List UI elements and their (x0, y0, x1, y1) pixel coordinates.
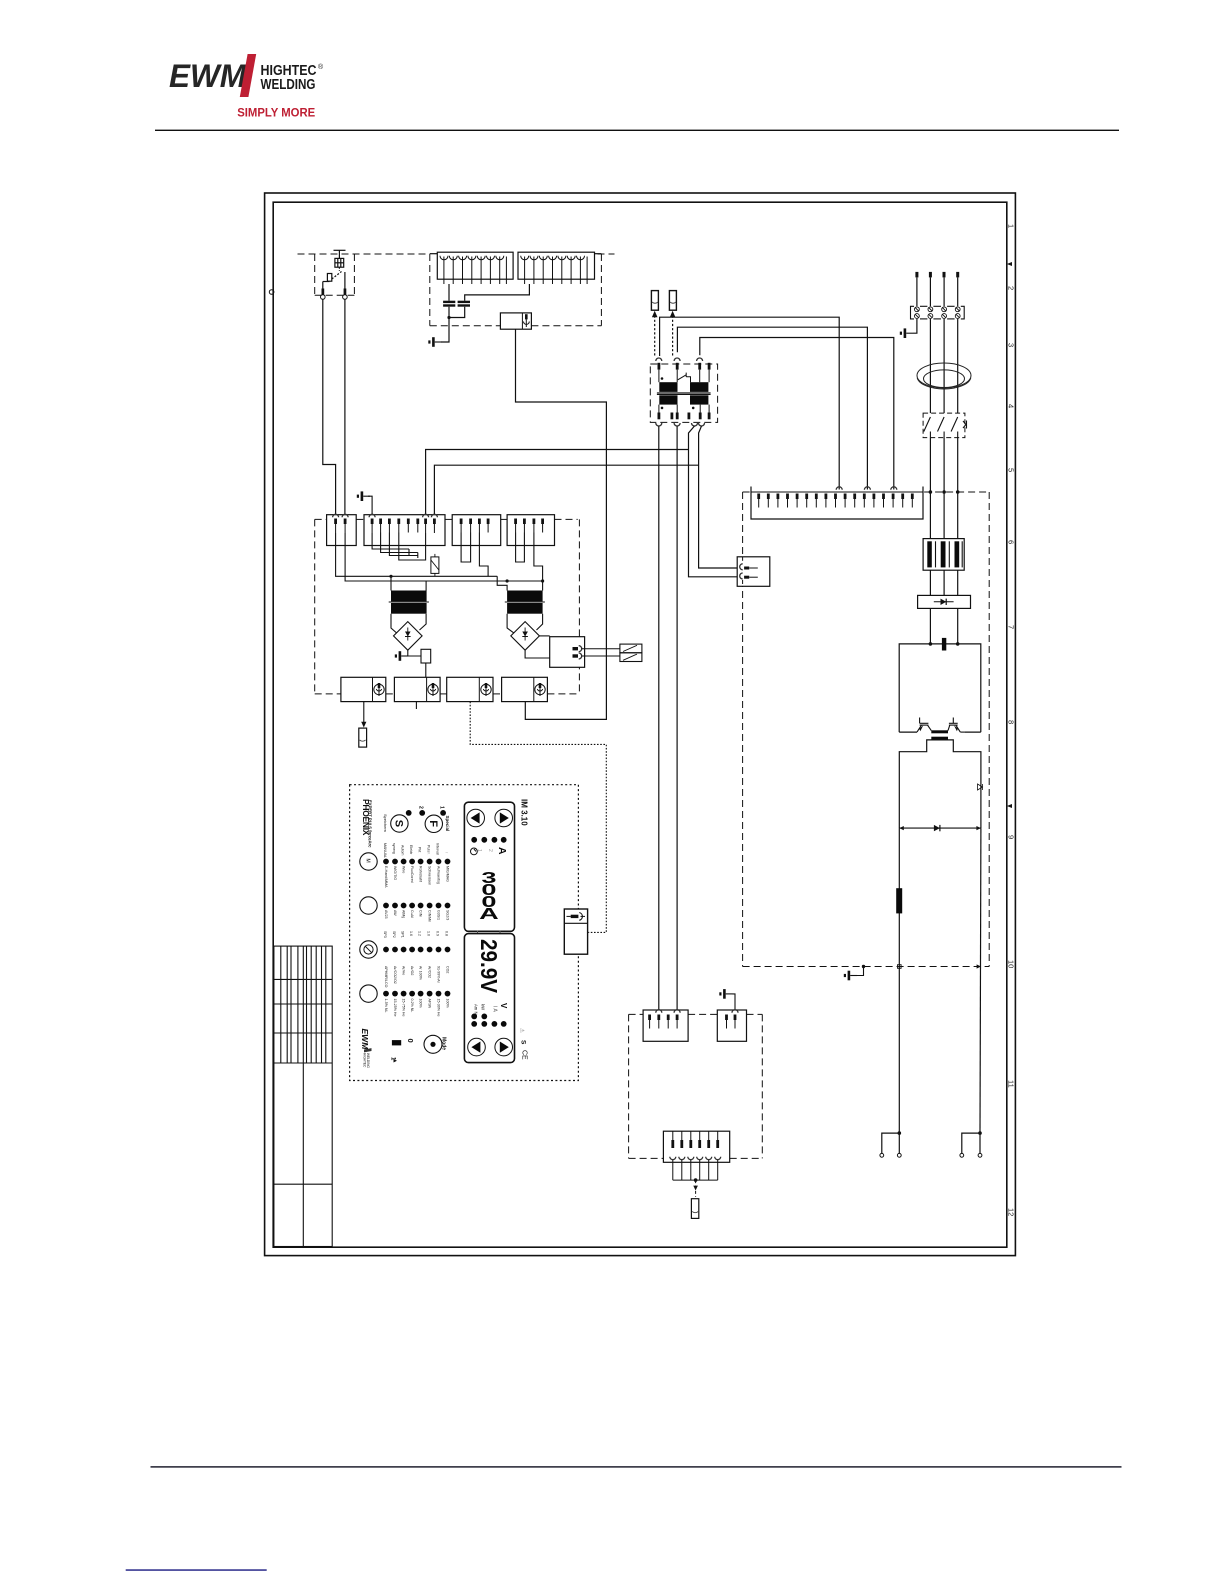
svg-text:15-75% He: 15-75% He (402, 999, 406, 1017)
V3 output: fuse F6 + ground (408, 650, 421, 656)
svg-text:0: 0 (406, 1039, 415, 1043)
junction dots on power box edge (929, 490, 933, 494)
T2 secondary windings (659, 395, 677, 404)
T2 primary windings (659, 382, 677, 392)
svg-text:Wire: Wire (402, 866, 406, 873)
relay K3 box (550, 637, 585, 668)
svg-text:WIG/TIG: WIG/TIG (393, 866, 397, 880)
svg-text:1.0: 1.0 (427, 931, 431, 936)
LED matrix tiny labels (383, 843, 450, 1016)
display window separator ticks (477, 931, 479, 934)
mains lead-in caps (915, 272, 959, 278)
svg-text:E-Hand/MMA: E-Hand/MMA (384, 866, 388, 888)
svg-text:100%: 100% (419, 999, 423, 1009)
svg-text:Ar/He: Ar/He (402, 966, 406, 975)
svg-text:0.2% NL: 0.2% NL (410, 999, 414, 1013)
bottom-left short rule (126, 1569, 267, 1571)
matrix button row4 (360, 985, 377, 1002)
svg-text:CuAl: CuAl (410, 910, 414, 918)
svg-text:Mode: Mode (441, 1037, 447, 1050)
header strip XD (507, 515, 554, 546)
wire choke L3 to capacitor C2 (465, 284, 530, 301)
svg-text:synerg: synerg (392, 843, 396, 854)
7-segment current readout 300A (479, 869, 499, 923)
svg-text:Autom: Autom (401, 845, 405, 855)
svg-text:I A: I A (492, 1006, 498, 1013)
dashed enclosure Z1 (430, 254, 615, 326)
svg-text:11: 11 (1006, 1080, 1015, 1088)
svg-text:SIMPLY MORE: SIMPLY MORE (237, 106, 315, 120)
svg-text:CE: CE (521, 1050, 528, 1060)
secondary rectifier module A2 (899, 740, 981, 828)
capacitor C1 (443, 301, 455, 307)
fan M4 (502, 677, 548, 701)
frame centre tick marks (1007, 262, 1012, 266)
connector X3 (2-pin) (717, 1010, 746, 1042)
svg-text:WELDING: WELDING (366, 1053, 370, 1068)
svg-text:1.6: 1.6 (409, 931, 413, 936)
svg-text:CO2: CO2 (446, 966, 450, 973)
wire: switch to PCB strip A pin2 (344, 299, 346, 514)
svg-text:MIG/MAG: MIG/MAG (446, 866, 450, 882)
svg-text:Aufwaertsg: Aufwaertsg (437, 866, 441, 884)
wires transformer T2 primaries to strip X1 sockets (660, 317, 894, 489)
svg-text:MANUAL: MANUAL (383, 843, 387, 858)
T2 polarity dots (661, 377, 664, 380)
ground (mains PE) (900, 328, 913, 338)
IGBT Q2 left (917, 718, 931, 733)
control transformer T2 dashed box (650, 364, 717, 422)
bridge rectifier V3 (diamond) (394, 622, 423, 651)
svg-text:IM 3.10: IM 3.10 (520, 799, 529, 826)
ground (EMC filter) (428, 337, 441, 347)
svg-text:12: 12 (1006, 1208, 1015, 1216)
svg-text:7: 7 (1006, 625, 1015, 629)
arrow key down (A) (467, 809, 485, 827)
power indicator I / 0 / 1 (392, 1040, 401, 1045)
svg-text:100%: 100% (446, 999, 450, 1009)
matrix button row1 (360, 853, 377, 870)
fuse holder dotted links with arrows (655, 316, 673, 358)
remote/torch connector X6 (564, 909, 587, 954)
T2 tap selector lever (678, 373, 691, 383)
main switch Q1 symbol (323, 250, 346, 290)
output terminal pair plus (962, 1133, 980, 1153)
LED matrix rows (383, 859, 450, 997)
dotted control line from fan M3 to front panel (470, 702, 606, 933)
svg-text:G3Si1: G3Si1 (437, 910, 441, 920)
wires diode module to inverter (930, 608, 957, 644)
display2 LED row (471, 1021, 477, 1027)
wires rectifier to diode module (930, 570, 957, 595)
svg-text:/: / (445, 852, 450, 854)
crossing marks on dashed edge (898, 965, 902, 969)
clock symbol + A unit (471, 848, 478, 855)
svg-text:APHMR/LCO: APHMR/LCO (384, 966, 388, 988)
svg-text:2: 2 (1006, 286, 1015, 290)
choke block L3 (518, 252, 601, 284)
wire choke L2 to capacitor C1 (448, 284, 450, 301)
secondary wires to connector X5 (689, 426, 738, 577)
svg-text:/\: /\ (427, 852, 432, 855)
diode module V2 (918, 595, 971, 608)
panel dotted enclosure (350, 785, 579, 1081)
header strip XB (364, 514, 445, 545)
svg-text:WELDING: WELDING (261, 77, 316, 93)
svg-text:AFSN: AFSN (428, 999, 432, 1009)
svg-text:1: 1 (1006, 224, 1015, 228)
svg-text:1: 1 (439, 806, 445, 809)
arrow key up (V) (495, 1038, 513, 1056)
stub below fan M2 (415, 702, 417, 709)
svg-text:EWM: EWM (169, 58, 247, 94)
svg-text:EWM: EWM (360, 1029, 370, 1051)
svg-text:F: F (427, 820, 439, 827)
main transformer T3 (931, 730, 948, 733)
inverter module A1 (899, 644, 981, 732)
svg-text:S: S (392, 820, 404, 827)
svg-text:6: 6 (1006, 540, 1015, 544)
capacitor C2 (458, 301, 470, 307)
svg-text:Ar/O2: Ar/O2 (410, 966, 414, 975)
varistor R2 (431, 554, 439, 576)
svg-text:SP2: SP2 (392, 931, 396, 938)
svg-text:Speichern: Speichern (383, 814, 388, 832)
power unit dashed enclosure (743, 492, 990, 967)
PE wire to chassis ground (913, 319, 917, 333)
Mode button (424, 1035, 442, 1053)
dashed link to temperature sensor (695, 1180, 697, 1197)
svg-text:8: 8 (1006, 720, 1015, 724)
small diode mark on module edge (978, 784, 983, 790)
IGBT Q3 right (948, 718, 965, 733)
svg-text:15-30% He: 15-30% He (437, 999, 441, 1017)
outer frame (265, 193, 1016, 1256)
svg-text:M: M (365, 859, 371, 863)
matrix button row2 (360, 897, 377, 914)
left frame connector mark (269, 290, 274, 295)
fuse F1 (651, 291, 658, 311)
svg-text:EXPERT PULS forceArc: EXPERT PULS forceArc (367, 800, 372, 848)
display1 LED row (471, 837, 477, 843)
switch terminal pins (322, 289, 325, 296)
matrix button row3 (360, 941, 377, 958)
dashed enclosure X-group (629, 1014, 763, 1158)
temperature sensor B1 (691, 1199, 698, 1219)
svg-text:4: 4 (1006, 404, 1015, 408)
bridge rectifier V5 (diamond) (511, 622, 540, 651)
arrow key down (V) (468, 1038, 486, 1056)
wire: switch to PCB strip A pin1 (323, 299, 336, 514)
svg-text:SG2/3: SG2/3 (446, 910, 450, 920)
header strip XA (327, 514, 357, 545)
bottom rule (151, 1466, 1122, 1467)
svg-text:®: ® (318, 63, 324, 71)
button F (425, 815, 442, 832)
svg-text:Pkt: Pkt (418, 847, 422, 852)
fan M2 (394, 677, 440, 701)
svg-text:0.8: 0.8 (445, 931, 449, 936)
secondary feed wires to PCB strip XB (426, 450, 689, 515)
svg-text:kW: kW (481, 1004, 486, 1010)
svg-text:SP3: SP3 (383, 931, 387, 938)
wire relay K1 to fan M4 net (long vertical) (516, 329, 607, 719)
aux transformer T4 (391, 591, 427, 602)
ground on power enclosure (857, 967, 864, 976)
output terminal pair minus (882, 1133, 900, 1153)
svg-text:AV23: AV23 (384, 910, 388, 919)
T2 top terminals (656, 358, 662, 361)
svg-text:5: 5 (1006, 468, 1015, 472)
T2 bottom terminals (656, 423, 662, 426)
shunt R1 (896, 888, 902, 913)
svg-text:CrNiMn: CrNiMn (428, 910, 432, 922)
wire caps to ground (449, 307, 465, 318)
zone numbers right margin (1006, 224, 1015, 1216)
svg-text:V: V (499, 1003, 508, 1009)
contactor K2 dashed box (923, 413, 965, 438)
EWM logo wordmark (169, 58, 247, 94)
header strip XC (452, 515, 501, 546)
fuse F5 below fan M1 (363, 702, 365, 726)
V5 output to relay K3 (539, 635, 549, 637)
logo red slash (240, 54, 256, 97)
connector X2 (4-pin) (643, 1010, 688, 1042)
ampere display window (464, 802, 514, 931)
svg-text:A: A (479, 905, 499, 923)
svg-text:15-25% He: 15-25% He (393, 999, 397, 1017)
svg-text:SP1: SP1 (401, 931, 405, 938)
svg-text:AW: AW (393, 910, 397, 916)
svg-text:⚠: ⚠ (519, 1028, 526, 1034)
svg-text:FluxCored: FluxCored (410, 866, 414, 883)
mains wires L1 L2 L3 PE down to terminal block (917, 277, 958, 306)
svg-text:2: 2 (418, 806, 424, 809)
PCB internal wiring (336, 533, 543, 591)
svg-text:2: 2 (487, 849, 493, 852)
contactor K2 contacts (924, 417, 967, 438)
faint mode glyph row (384, 847, 450, 855)
svg-text:Elektr: Elektr (409, 845, 413, 855)
svg-text:3: 3 (1006, 343, 1015, 347)
svg-text:29.9V: 29.9V (476, 939, 502, 994)
EWM logo on panel (360, 1029, 372, 1069)
svg-text:Ar 100%: Ar 100% (419, 966, 423, 981)
ground above strip XB (357, 491, 370, 501)
dashed enclosure S1 (mains switch) (298, 254, 430, 295)
toroid ferrite ring L1 (917, 363, 971, 389)
T2 core lines (657, 392, 711, 394)
svg-text:0.9: 0.9 (436, 931, 440, 936)
svg-text:S: S (520, 1040, 527, 1045)
mains wires through toroid (930, 319, 957, 413)
svg-text:9: 9 (1006, 835, 1015, 839)
T2 bottom pins (658, 413, 711, 420)
svg-text:HIGHTEC: HIGHTEC (363, 1053, 367, 1068)
svg-text:Rohrdraht: Rohrdraht (419, 866, 423, 882)
aux transformer T5 (507, 591, 542, 602)
input rectifier V1 (923, 539, 964, 571)
inner frame (273, 202, 1007, 1247)
svg-text:1.2: 1.2 (418, 931, 422, 936)
button S (391, 815, 408, 832)
svg-text:91-99% Ar: 91-99% Ar (437, 966, 441, 984)
fuse F2 (669, 291, 676, 311)
relay K1 box (500, 313, 531, 329)
output positive lead (979, 828, 982, 1133)
thermostat F3 (620, 644, 642, 653)
choke block L2 (430, 252, 513, 284)
freewheel diode V4 on module base (899, 827, 981, 829)
svg-text:1-5% NL: 1-5% NL (384, 999, 388, 1013)
svg-text:Schweissen: Schweissen (428, 866, 432, 885)
arrow key up (A) (495, 809, 513, 827)
X4 summing bus (673, 1160, 718, 1180)
top rule (155, 130, 1119, 131)
svg-text:Special: Special (445, 816, 450, 832)
ground at X3 (733, 994, 736, 1009)
fan M1 (341, 677, 386, 701)
svg-text:Ar/CO2/O2: Ar/CO2/O2 (393, 966, 397, 984)
DC link capacitor C3 (942, 638, 946, 651)
svg-text:1: 1 (476, 849, 482, 852)
svg-text:CrNi: CrNi (419, 910, 423, 917)
svg-text:AlMg: AlMg (402, 910, 406, 918)
terminal block X0 (911, 306, 965, 319)
thermostat F4 (620, 653, 642, 662)
fan M3 (447, 677, 493, 701)
svg-text:Ar/CO2: Ar/CO2 (428, 966, 432, 978)
secondary wires to lower connector X2 (658, 426, 660, 1012)
voltage display window (464, 934, 514, 1063)
mains wires to rectifier (930, 438, 957, 539)
svg-text:10: 10 (1006, 960, 1015, 968)
output negative lead with shunt (898, 828, 900, 1133)
connector X4 (6-pin, current sensor) (663, 1131, 729, 1162)
svg-text:A: A (496, 847, 508, 855)
